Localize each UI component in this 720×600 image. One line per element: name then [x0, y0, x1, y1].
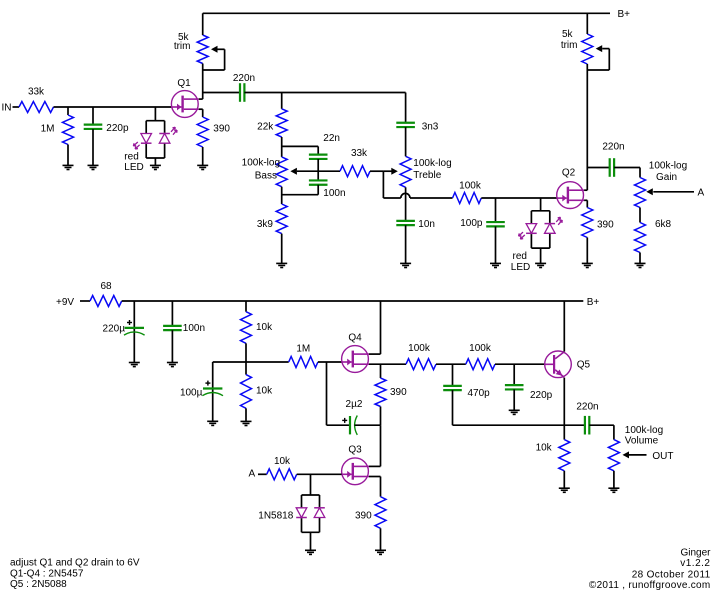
wire 100k to 470p node — [436, 363, 466, 365]
wire LED pair branch — [154, 107, 156, 121]
wire 220u branch — [133, 301, 135, 363]
svg-text:10k: 10k — [536, 443, 553, 454]
ground 3k9 — [276, 263, 287, 267]
trim wiper arrow Q2 — [587, 45, 609, 70]
ground Q2 390 — [582, 263, 593, 267]
ground 100p — [490, 263, 501, 267]
copyright runoffgroove — [589, 580, 711, 591]
svg-text:LED: LED — [124, 162, 143, 173]
wire 220p branch Q5 base — [513, 364, 515, 385]
wire Q5 collector to rail — [563, 301, 565, 352]
svg-text:100µ: 100µ — [180, 388, 203, 399]
wire Q2 drain rail — [584, 70, 587, 190]
resistor 10k divider upper — [241, 312, 274, 344]
svg-text:220n: 220n — [602, 142, 624, 153]
diode pair 1N5818 — [258, 495, 325, 532]
wire 10k output branch — [563, 425, 565, 439]
svg-text:470p: 470p — [468, 388, 491, 399]
ground volume — [608, 488, 619, 492]
note transistor type Q5 — [10, 579, 67, 590]
wire 220n to volume — [589, 425, 614, 439]
capacitor 100u electrolytic — [180, 381, 223, 399]
svg-text:10k: 10k — [256, 385, 273, 396]
version v1.2.2 — [680, 558, 710, 569]
svg-text:100p: 100p — [460, 218, 483, 229]
wire 390 to ground — [202, 147, 204, 165]
capacitor 220p Q5 — [505, 385, 553, 401]
wire 220p to ground — [92, 129, 94, 165]
resistor 100k interstage b — [466, 343, 495, 370]
svg-text:1M: 1M — [41, 123, 55, 134]
wire B+ supply rail stage 2 — [122, 300, 584, 302]
svg-text:B+: B+ — [587, 297, 600, 308]
resistor 10k output — [536, 440, 570, 471]
svg-text:B+: B+ — [618, 9, 631, 20]
resistor 1M Q4 gate — [289, 343, 318, 367]
svg-text:red: red — [513, 251, 527, 262]
ground output 10k — [559, 488, 570, 492]
capacitor 220n output coupling — [576, 401, 598, 434]
ground 100n — [167, 363, 178, 367]
resistor 390 Q3 source — [355, 497, 386, 529]
capacitor 10n — [396, 219, 435, 230]
svg-text:100k: 100k — [469, 343, 492, 354]
wire Q2 390 to ground — [586, 238, 588, 264]
svg-text:Q3: Q3 — [348, 445, 362, 456]
svg-text:v1.2.2: v1.2.2 — [680, 558, 710, 569]
wire 100n to bass bottom node — [282, 185, 319, 195]
svg-text:Ginger: Ginger — [680, 548, 711, 559]
resistor 100k interstage a — [406, 343, 436, 370]
ground 220u — [129, 363, 140, 367]
svg-text:100k-log: 100k-log — [413, 158, 451, 169]
svg-text:A: A — [249, 469, 256, 480]
svg-text:trim: trim — [174, 41, 191, 52]
transistor Q2 JFET 2N5457 — [557, 168, 584, 209]
wire Q4 390 branch — [380, 364, 382, 378]
capacitor 220p input — [84, 123, 129, 134]
svg-text:33k: 33k — [351, 148, 368, 159]
svg-text:Q5: Q5 — [577, 359, 591, 370]
svg-text:10k: 10k — [256, 322, 273, 333]
capacitor 100n supply — [163, 323, 205, 334]
ground 1M — [63, 165, 74, 169]
wire 10k to ground — [563, 471, 565, 488]
transistor Q3 JFET 2N5457 — [342, 445, 369, 485]
svg-text:220p: 220p — [106, 123, 129, 134]
ground 10n — [400, 263, 411, 267]
wire 22n to wiper node — [317, 159, 319, 171]
wire 220n to tone stack — [244, 92, 405, 94]
capacitor 100n tone — [309, 171, 346, 199]
wire 10k to Q3 gate — [297, 473, 342, 475]
wire 10k to ground — [245, 408, 247, 421]
wire gain to 6k8 — [639, 208, 641, 223]
date 28 October 2011 — [632, 570, 711, 581]
svg-text:6k8: 6k8 — [655, 219, 672, 230]
wire 1M to Q4 gate — [318, 361, 342, 363]
ground LED2 — [535, 263, 546, 267]
svg-text:10n: 10n — [418, 219, 435, 230]
wire Q3 390 to ground — [380, 528, 382, 550]
svg-text:1M: 1M — [296, 343, 310, 354]
resistor 10k divider lower — [241, 375, 274, 409]
node B+ label stage 2 — [587, 297, 600, 308]
wire Q4 drain to rail — [369, 301, 381, 354]
wire 5k trim to top rail — [202, 13, 204, 35]
wire diodes to ground — [310, 532, 312, 550]
wire 100n to ground — [171, 330, 173, 362]
node B+ label top — [618, 9, 631, 20]
wire 390 to 2u2 node — [380, 407, 382, 426]
wire A to 10k — [258, 473, 267, 475]
resistor 6k8 — [635, 219, 672, 253]
wire Q1 drain node to 220n — [203, 92, 240, 94]
note adjust line — [10, 558, 140, 569]
wire 22k to bass top node — [281, 137, 283, 157]
svg-text:1N5818: 1N5818 — [258, 511, 293, 522]
transistor Q1 JFET 2N5457 — [171, 78, 198, 118]
svg-text:28 October 2011: 28 October 2011 — [632, 570, 711, 581]
potentiometer 100k-log Bass — [242, 157, 288, 187]
wire 100k to Q5 base — [495, 363, 545, 365]
wire treble top to 3n3 — [405, 93, 407, 123]
svg-text:Q4: Q4 — [348, 333, 362, 344]
svg-text:220n: 220n — [576, 401, 598, 412]
wire LED2 branch — [540, 198, 542, 211]
wire bias node to 1M — [246, 361, 289, 363]
wire gate node down to 2u2 — [327, 362, 351, 425]
svg-text:+9V: +9V — [56, 297, 74, 308]
resistor 390 Q1 source — [197, 117, 230, 147]
svg-text:100k: 100k — [459, 181, 482, 192]
capacitor 3n3 — [396, 121, 439, 132]
svg-text:©2011 , runoffgroove.com: ©2011 , runoffgroove.com — [589, 580, 711, 591]
capacitor 2u2 electrolytic bypass — [342, 399, 363, 435]
wire bass top node to cap chain — [282, 146, 319, 154]
svg-text:Q1: Q1 — [177, 78, 191, 89]
trimpot 5k trim Q1 drain — [174, 32, 208, 70]
wire divider branch — [245, 301, 247, 312]
wire divider node — [245, 343, 247, 374]
wire trim2 to top rail — [586, 13, 588, 34]
wire 100p to ground — [495, 226, 497, 263]
wire Q3 drain — [369, 465, 381, 467]
wire Q1 drain to rail — [199, 70, 203, 99]
wire input node to Q1 gate — [54, 106, 172, 108]
wire 470p branch — [452, 364, 454, 386]
red LED clipping pair Q1 gate — [124, 121, 177, 173]
svg-text:adjust Q1 and Q2 drain to 6V: adjust Q1 and Q2 drain to 6V — [10, 558, 140, 569]
treble wiper arrow — [391, 168, 398, 175]
svg-text:A: A — [698, 188, 705, 199]
wire top B+ rail — [203, 12, 610, 14]
capacitor 22n — [309, 133, 340, 159]
wire Q2 drain node to 220n — [587, 167, 609, 169]
wire Q2 source — [584, 200, 587, 207]
wire 220p to ground — [513, 389, 515, 410]
wire IN to 33k — [13, 106, 20, 108]
svg-text:100k: 100k — [408, 343, 431, 354]
svg-text:OUT: OUT — [652, 451, 673, 462]
svg-text:IN: IN — [2, 102, 12, 113]
svg-text:Q2: Q2 — [562, 168, 576, 179]
resistor 390 Q4 source — [375, 378, 407, 407]
title Ginger — [680, 548, 711, 559]
trim wiper arrow Q1 — [203, 46, 225, 70]
svg-text:33k: 33k — [28, 86, 45, 97]
ground LED pair — [150, 165, 161, 169]
resistor 33k input — [19, 86, 54, 112]
wire diode branch — [310, 474, 312, 495]
wire volume to ground — [613, 471, 615, 488]
svg-text:220n: 220n — [233, 73, 255, 84]
potentiometer 100k-log Gain — [635, 160, 688, 207]
resistor 100k tone output — [453, 181, 482, 204]
wire 220p branch — [92, 107, 94, 125]
potentiometer 100k-log Volume — [608, 425, 663, 471]
resistor 390 Q2 source — [582, 208, 614, 238]
svg-text:Volume: Volume — [625, 435, 659, 446]
svg-text:22k: 22k — [257, 122, 274, 133]
wire 33k to treble wiper node — [370, 170, 392, 172]
resistor 3k9 — [257, 204, 287, 234]
transistor Q4 JFET 2N5457 — [342, 333, 369, 373]
node IN input label — [2, 102, 12, 113]
wire hop to 100k — [410, 197, 453, 199]
wire 6k8 to ground — [639, 253, 641, 264]
wire treble bottom to 10n — [405, 187, 407, 221]
resistor 68 supply filter — [90, 281, 122, 307]
wire 22k branch — [281, 93, 283, 109]
wire 100k to Q2 gate — [481, 197, 556, 199]
ground Q3 390 — [375, 550, 386, 554]
ground 100u — [207, 421, 218, 425]
wire 2u2 to Q3 drain node — [355, 425, 381, 466]
svg-text:3k9: 3k9 — [257, 219, 274, 230]
wire Q1 source — [199, 109, 203, 117]
svg-text:390: 390 — [390, 387, 407, 398]
wire 3n3 to treble — [405, 127, 407, 156]
svg-text:10k: 10k — [274, 456, 291, 467]
svg-text:LED: LED — [511, 262, 530, 273]
svg-text:Q5 : 2N5088: Q5 : 2N5088 — [10, 579, 67, 590]
wire bias node to 100u — [213, 362, 246, 421]
resistor 1M — [41, 115, 74, 145]
wire +9V to 68 — [80, 300, 90, 302]
red LED clipping pair Q2 gate — [511, 211, 562, 273]
capacitor 220n coupling 2 — [602, 142, 624, 177]
ground diodes — [305, 550, 316, 554]
svg-text:68: 68 — [100, 281, 112, 292]
svg-text:100k-log: 100k-log — [649, 160, 687, 171]
svg-text:Q1-Q4 : 2N5457: Q1-Q4 : 2N5457 — [10, 568, 84, 579]
wire 220n to gain pot — [614, 168, 640, 178]
wire 3k9 to ground — [281, 234, 283, 264]
svg-text:220µ: 220µ — [103, 323, 126, 334]
ground 6k8 — [635, 263, 646, 267]
capacitor 220u electrolytic — [103, 320, 145, 335]
ground 220p — [88, 165, 99, 169]
svg-text:trim: trim — [561, 40, 578, 51]
wire treble wiper down to output line — [383, 171, 400, 198]
resistor 33k tone — [340, 148, 370, 177]
volume wiper arrow to OUT — [623, 451, 674, 462]
resistor 10k Q3 gate — [267, 456, 297, 480]
wire 1M branch — [67, 107, 69, 115]
wire 100p branch — [495, 198, 497, 222]
wire 100n branch — [171, 301, 173, 326]
transistor Q5 BJT 2N5088 — [545, 351, 591, 378]
svg-text:Bass: Bass — [255, 170, 277, 181]
wire bass bottom to 3k9 — [281, 187, 283, 204]
capacitor 220n coupling 1 — [233, 73, 255, 102]
ground Q1 390 — [197, 165, 208, 169]
node +9V supply label — [56, 297, 74, 308]
wire 1M to ground — [67, 145, 69, 166]
svg-text:220p: 220p — [530, 390, 553, 401]
svg-text:3n3: 3n3 — [422, 121, 439, 132]
note transistor types Q1-Q4 — [10, 568, 84, 579]
gain wiper arrow to node A — [646, 188, 704, 199]
ground 220p Q5 — [509, 410, 520, 414]
resistor 22k — [257, 109, 287, 137]
svg-text:2µ2: 2µ2 — [346, 399, 363, 410]
wire Q4 source run — [369, 363, 406, 365]
svg-text:390: 390 — [213, 124, 230, 135]
wire LED2 to ground — [540, 248, 542, 263]
svg-text:100n: 100n — [183, 323, 205, 334]
node A label Q3 gate — [249, 469, 256, 480]
wire 470p to feedback line — [453, 390, 586, 425]
wire 10n to ground — [405, 225, 407, 263]
potentiometer 100k-log Treble — [400, 156, 452, 187]
bass wiper arrow — [290, 168, 340, 175]
capacitor 100p — [460, 218, 505, 229]
svg-text:22n: 22n — [323, 133, 340, 144]
svg-text:390: 390 — [355, 511, 372, 522]
wire Q3 source — [369, 477, 381, 497]
svg-text:Gain: Gain — [656, 172, 677, 183]
wire hop over treble bottom — [401, 193, 410, 198]
svg-text:5k: 5k — [562, 29, 574, 40]
capacitor 470p — [443, 386, 490, 399]
wire Q5 emitter to output node — [563, 378, 565, 426]
svg-text:100k-log: 100k-log — [242, 158, 280, 169]
svg-text:390: 390 — [597, 219, 614, 230]
ground divider — [241, 421, 252, 425]
wire LED to ground — [154, 158, 156, 165]
trimpot 5k trim Q2 drain — [561, 29, 593, 70]
svg-text:Treble: Treble — [413, 170, 441, 181]
svg-text:100n: 100n — [323, 188, 345, 199]
